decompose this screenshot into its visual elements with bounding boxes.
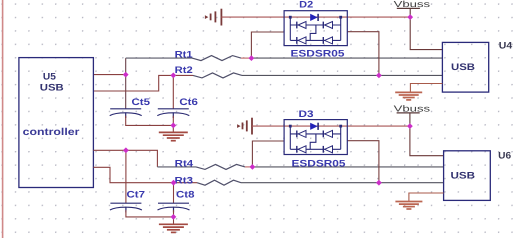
diode D2b	[322, 22, 324, 29]
wire Ct6 bottom to ground node E	[172, 116, 174, 132]
wire jog to Rt1	[126, 57, 193, 59]
junction node I	[376, 180, 382, 186]
svg-text:Vbuss: Vbuss	[394, 104, 431, 114]
IC U6 USB connector box	[444, 151, 491, 201]
junction Vbuss bottom	[407, 123, 413, 129]
svg-text:ESDSR05: ESDSR05	[292, 158, 347, 169]
IC U4 USB connector box	[442, 42, 488, 92]
wire Ct8 bottom to ground node J	[173, 210, 175, 224]
svg-text:Ct8: Ct8	[176, 190, 195, 201]
wire controller pin3	[93, 149, 126, 151]
svg-text:Rt2: Rt2	[175, 65, 193, 76]
svg-text:USB: USB	[451, 62, 475, 73]
wire controller pin4 with jog down	[93, 167, 173, 182]
wire node G to U6 pin2	[252, 166, 443, 168]
junction node D	[376, 73, 382, 79]
diode D3c	[296, 146, 298, 153]
svg-text:ESDSR05: ESDSR05	[291, 49, 346, 60]
ground GND2 (below Ct5/Ct6)	[159, 132, 188, 140]
capacitor Ct5	[110, 109, 142, 118]
diode array D3 ESDSR05	[284, 120, 347, 155]
junction node A	[123, 72, 129, 78]
wire Vbuss node to U6 pin1	[410, 126, 444, 156]
svg-text:controller: controller	[23, 127, 80, 138]
diode D3a	[296, 131, 298, 138]
wire controller pin1	[93, 74, 125, 76]
zener diode D2 (solid, top)	[310, 14, 318, 21]
ground GND4 (sideways earth, left of D3)	[238, 118, 253, 135]
svg-text:Rt4: Rt4	[175, 159, 194, 170]
wire D2 pin right to node D	[347, 32, 379, 76]
wire Vbuss node to U4 pin1	[410, 17, 442, 50]
wire Ct5 bottom to ground node E	[126, 116, 174, 126]
wire Rt1 to node B	[241, 57, 251, 59]
svg-text:Rt3: Rt3	[175, 175, 194, 186]
svg-text:U6: U6	[498, 151, 511, 162]
wire D3 pin left to node G	[252, 141, 284, 167]
diode D3d	[322, 146, 324, 153]
wire D2 pin left to node B	[251, 32, 284, 58]
wire node H down to Ct8	[173, 183, 175, 203]
capacitor Ct8	[158, 203, 190, 212]
junction node J	[171, 214, 177, 220]
diode D3b	[322, 131, 324, 138]
zener diode D3 (solid, top)	[310, 123, 318, 130]
svg-text:D2: D2	[299, 0, 313, 11]
page border left edge	[2, 0, 4, 238]
svg-text:U5: U5	[43, 71, 57, 82]
svg-text:USB: USB	[40, 82, 64, 93]
svg-text:Rt1: Rt1	[175, 49, 194, 60]
ground GND6 (U6)	[395, 202, 422, 210]
wire node C down to Ct6	[172, 75, 174, 108]
svg-text:Ct7: Ct7	[127, 190, 146, 201]
wire node C to Rt2	[173, 74, 193, 76]
ground GND5 (below Ct7/Ct8)	[159, 224, 188, 232]
wire D3 pin right to node I	[347, 141, 379, 183]
wire node F down to Ct7	[125, 150, 127, 203]
wire Ct7 bottom to ground node J	[126, 210, 173, 217]
svg-text:Ct6: Ct6	[179, 97, 198, 108]
wire vertical at node A (junction to Rt1 / Ct5)	[125, 58, 127, 109]
capacitor Ct6	[157, 109, 189, 118]
ground GND3 (U4)	[395, 92, 422, 100]
capacitor Ct7	[110, 203, 142, 212]
junction node B	[249, 55, 255, 61]
svg-text:USB: USB	[451, 170, 476, 181]
junction node C	[170, 73, 176, 79]
svg-text:U4: U4	[499, 40, 513, 51]
svg-text:Ct5: Ct5	[132, 97, 151, 108]
wire U4 pin4 to ground	[410, 84, 442, 93]
wire net GND1 to Vbuss node (through D2 top pins)	[221, 16, 410, 18]
junction node F	[123, 147, 129, 153]
resistor Rt3	[197, 180, 241, 185]
wire Rt4 to node G	[245, 166, 252, 168]
diode D2d	[322, 37, 324, 44]
wire Rt3 to U6 pin3	[241, 182, 444, 184]
junction node E	[170, 123, 176, 129]
junction node G	[250, 164, 256, 170]
wire Rt2 to U4 pin3	[242, 74, 442, 76]
wire Vbuss stub (top)	[409, 8, 411, 17]
resistor Rt1	[192, 56, 241, 61]
diode D2a	[296, 22, 298, 29]
svg-text:D3: D3	[299, 109, 314, 120]
junction Vbuss top	[407, 14, 413, 20]
wire Vbuss stub (bottom)	[409, 113, 411, 126]
wire U6 pin4 to ground	[409, 193, 444, 201]
wire node H to Rt3	[174, 182, 198, 184]
svg-text:Vbuss: Vbuss	[394, 0, 431, 9]
wire controller pin2 with jog up	[93, 75, 173, 91]
ground GND1 (sideways earth, top left of D2)	[205, 9, 221, 26]
resistor Rt4	[196, 164, 245, 169]
diode array D2 ESDSR05	[284, 11, 347, 46]
wire node F to Rt4 jog	[126, 150, 157, 167]
resistor Rt2	[193, 73, 242, 78]
wire node B to U4 pin2	[251, 57, 442, 59]
junction node H	[171, 180, 177, 186]
wire net GND4 to Vbuss node (through D3 top pins)	[252, 125, 410, 127]
diode D2c	[296, 37, 298, 44]
IC U5 USB controller box	[19, 58, 94, 188]
